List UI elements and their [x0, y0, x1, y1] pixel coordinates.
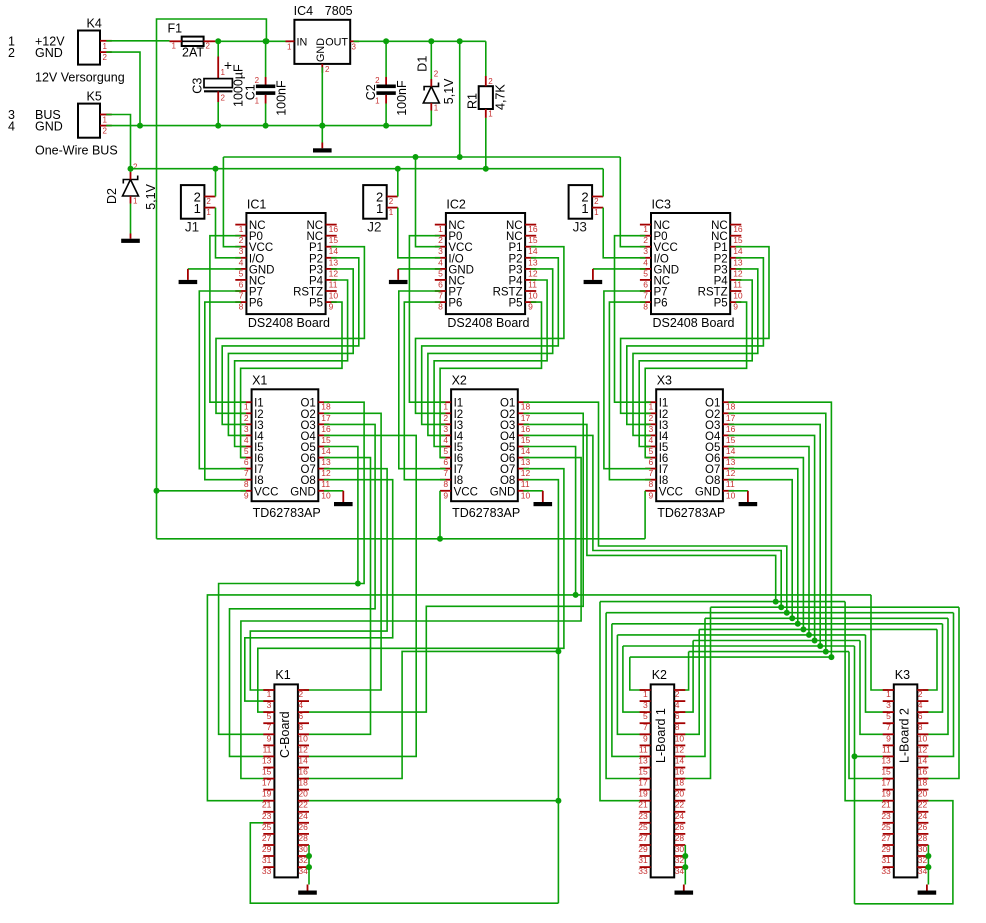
svg-text:16: 16: [298, 767, 308, 777]
IC X1 TD62783AP labels: [252, 374, 321, 521]
capacitor C3: [204, 57, 232, 103]
wire bus L8 to K3 pin9: [860, 641, 888, 735]
svg-text:TD62783AP: TD62783AP: [657, 506, 725, 520]
wire bus L2 to K3 pin18: [923, 607, 959, 778]
IC IC1 DS2408: [235, 213, 338, 314]
svg-text:X3: X3: [657, 374, 672, 388]
svg-text:6: 6: [918, 711, 923, 721]
wire X1 O5 tee: [324, 447, 358, 584]
wire bus line L6: [699, 628, 937, 630]
svg-text:R1: R1: [466, 93, 480, 109]
svg-text:F1: F1: [168, 22, 183, 36]
wire D2 bottom: [130, 204, 132, 234]
wire fused12V vertical left: [156, 41, 158, 539]
wire bus L6 to K2 pin10: [680, 629, 699, 734]
wire bus line L4: [705, 617, 948, 619]
svg-text:C1: C1: [244, 84, 258, 100]
wire C2 bottom: [385, 104, 387, 126]
wire IC3 P6 to X3 I8: [609, 302, 650, 480]
wire X1 GND: [324, 490, 343, 492]
svg-text:5,1V: 5,1V: [442, 78, 456, 104]
svg-text:18: 18: [298, 778, 308, 788]
junction GND K5.2: [137, 123, 143, 129]
svg-text:IC3: IC3: [652, 198, 672, 212]
svg-text:2: 2: [594, 197, 599, 206]
svg-text:27: 27: [638, 833, 648, 843]
wire R1 top: [485, 41, 487, 76]
K4 pin labels: [8, 35, 65, 61]
F1 labels: [168, 22, 205, 60]
wire bus line L8: [693, 640, 860, 642]
svg-text:J1: J1: [185, 220, 199, 235]
wire bus L3 to K2 pin17: [606, 613, 645, 779]
svg-text:C2: C2: [364, 84, 378, 100]
junction C2 top: [383, 38, 389, 44]
svg-text:D2: D2: [105, 188, 119, 204]
wire IC2 P1 to X2 I2: [416, 247, 564, 414]
ground K2: [675, 885, 694, 895]
svg-text:6: 6: [643, 279, 648, 289]
svg-text:1: 1: [581, 201, 588, 216]
svg-text:GND: GND: [290, 486, 316, 498]
IC IC1 DS2408 labels: [247, 198, 330, 331]
junction bus L3: [784, 610, 790, 616]
K4 value label: [35, 71, 125, 85]
svg-text:IC4: IC4: [294, 4, 314, 18]
svg-text:DS2408 Board: DS2408 Board: [653, 316, 735, 330]
svg-text:1: 1: [443, 402, 448, 412]
svg-text:24: 24: [298, 811, 308, 821]
svg-text:2: 2: [443, 413, 448, 423]
wire X3 O7 to bus L5: [729, 469, 798, 624]
svg-text:31: 31: [881, 855, 891, 865]
wire X3 O1 to bus L11: [729, 402, 832, 657]
wire IC1 P3 to X1 I4: [228, 269, 353, 436]
wire X1 O1 to K1 pin9: [219, 402, 365, 734]
wire IC3 P5 to X3 I6: [645, 302, 746, 458]
svg-text:1: 1: [172, 42, 177, 51]
svg-text:24: 24: [918, 811, 928, 821]
svg-text:11: 11: [528, 279, 537, 289]
capacitor C2 labels: [364, 80, 409, 116]
wire IC2 P2 to X2 I3: [422, 258, 559, 425]
wire bus line L3: [606, 612, 953, 614]
wire IC3 P2 to X3 I3: [627, 258, 764, 425]
wire X2 O8 long drop: [523, 480, 558, 904]
svg-text:VCC: VCC: [454, 486, 478, 498]
junction K3 pin34: [925, 864, 931, 870]
wire to K3 pin13: [855, 755, 889, 757]
svg-text:25: 25: [881, 822, 891, 832]
wire IC3 P1 to X3 I2: [621, 247, 769, 414]
svg-text:K5: K5: [87, 90, 102, 104]
wire bus L11 to K2 pin1: [630, 657, 645, 690]
junction bus L9: [817, 643, 823, 649]
junction bus L8: [812, 638, 818, 644]
wire bus L9 to K2 pin5: [623, 646, 645, 712]
svg-text:5,1V: 5,1V: [144, 183, 158, 209]
svg-text:8: 8: [239, 302, 244, 312]
diode D1 zener labels: [416, 56, 457, 105]
svg-text:9: 9: [733, 302, 738, 312]
svg-text:DS2408 Board: DS2408 Board: [248, 316, 330, 330]
svg-text:2: 2: [434, 70, 439, 79]
svg-text:8: 8: [443, 479, 448, 489]
IC IC2 DS2408: [435, 213, 538, 314]
wire K2 gnd tie: [684, 845, 686, 885]
wire IC2 P0 to X2 I1: [409, 236, 445, 403]
svg-text:K4: K4: [87, 17, 102, 31]
wire BUS to J3.2: [602, 169, 604, 197]
wire X2 O4 to bus L2: [523, 435, 781, 607]
wire IC3 P3 to X3 I4: [633, 269, 758, 436]
svg-text:7: 7: [643, 722, 648, 732]
svg-text:12: 12: [521, 468, 531, 478]
junction BUS J2 tap: [395, 166, 401, 172]
svg-text:IC1: IC1: [247, 198, 267, 212]
ground IC1: [179, 269, 198, 284]
svg-text:DS2408 Board: DS2408 Board: [447, 316, 529, 330]
svg-text:28: 28: [298, 833, 308, 843]
wire bus L3 to K3 pin14: [923, 613, 954, 757]
svg-text:1: 1: [438, 224, 443, 234]
wire BUS K5.1 down: [106, 115, 130, 169]
svg-text:2: 2: [239, 235, 244, 245]
svg-text:2: 2: [438, 235, 443, 245]
wire IC1 P4 to X1 I5: [235, 280, 348, 447]
svg-text:11: 11: [329, 279, 338, 289]
jumper J3 label: [573, 220, 587, 235]
svg-text:15: 15: [638, 767, 648, 777]
svg-text:2: 2: [325, 65, 330, 74]
svg-text:OUT: OUT: [325, 36, 348, 48]
svg-text:24: 24: [675, 811, 685, 821]
svg-text:7: 7: [239, 291, 244, 301]
junction K3 pin13: [852, 753, 858, 759]
wire IC1 P5 to X1 I6: [241, 302, 342, 458]
svg-text:3: 3: [443, 424, 448, 434]
svg-text:3: 3: [643, 700, 648, 710]
wire X1 O8 to K1 pin3: [245, 480, 393, 701]
svg-text:18: 18: [918, 778, 928, 788]
junction bus L10: [823, 649, 829, 655]
wire bus L1 to K3 pin21: [845, 602, 888, 801]
svg-text:4: 4: [918, 700, 923, 710]
wire bus line L5: [612, 623, 943, 625]
svg-text:D1: D1: [416, 56, 430, 72]
svg-text:20: 20: [298, 789, 308, 799]
svg-text:X1: X1: [252, 374, 267, 388]
wire J to IC3 I/O: [603, 208, 645, 258]
svg-text:10: 10: [918, 733, 928, 743]
svg-text:27: 27: [262, 833, 272, 843]
wire BUS rail: [131, 168, 604, 170]
wire K1 pin22: [304, 800, 559, 802]
svg-text:2: 2: [206, 197, 211, 206]
wire IC2 P4 to X2 I5: [434, 280, 547, 447]
svg-text:12: 12: [528, 268, 538, 278]
svg-text:4: 4: [438, 257, 443, 267]
svg-text:11: 11: [882, 744, 891, 754]
junction GND C3: [215, 123, 221, 129]
IC X3 TD62783AP labels: [657, 374, 726, 521]
svg-text:IC2: IC2: [446, 198, 466, 212]
svg-text:1: 1: [287, 43, 292, 52]
svg-text:C-Board: C-Board: [278, 711, 292, 758]
wire D1 top: [430, 41, 432, 79]
svg-text:6: 6: [298, 711, 303, 721]
svg-text:9: 9: [886, 733, 891, 743]
svg-text:3: 3: [643, 246, 648, 256]
svg-text:20: 20: [918, 789, 928, 799]
svg-text:9: 9: [267, 733, 272, 743]
junction C3 top: [215, 38, 221, 44]
svg-text:15: 15: [329, 235, 339, 245]
wire bus L10 to K2 pin2: [680, 652, 689, 690]
svg-text:12: 12: [733, 268, 743, 278]
svg-text:5: 5: [886, 711, 891, 721]
svg-text:11: 11: [521, 479, 530, 489]
svg-text:5: 5: [643, 711, 648, 721]
wire bus L2 to K2 pin18: [680, 607, 711, 778]
svg-text:16: 16: [726, 424, 736, 434]
ground X1: [334, 491, 353, 506]
svg-text:15: 15: [726, 435, 736, 445]
wire X2 O7 to K1 pin5: [258, 469, 564, 712]
svg-text:4: 4: [8, 120, 15, 134]
wire bus L7 to K2 pin9: [617, 635, 645, 734]
wire bottom loop to K1 pin25: [250, 823, 558, 903]
svg-text:8: 8: [643, 302, 648, 312]
wire X1 O4 to K1 pin14: [304, 435, 417, 756]
wire X3 O5 to bus L7: [729, 447, 810, 635]
svg-text:GND: GND: [35, 120, 63, 134]
svg-text:9: 9: [244, 490, 249, 500]
svg-text:4: 4: [239, 257, 244, 267]
svg-text:12: 12: [298, 744, 308, 754]
svg-text:16: 16: [528, 224, 538, 234]
junction GND C1: [263, 123, 269, 129]
capacitor C1 labels: [244, 80, 289, 116]
svg-text:29: 29: [638, 844, 648, 854]
wire fused12V to IC4 IN: [215, 40, 291, 42]
diode D2 zener labels: [105, 183, 158, 209]
svg-text:11: 11: [733, 279, 742, 289]
svg-text:5: 5: [648, 446, 653, 456]
svg-text:1: 1: [103, 42, 108, 51]
wire J to IC2 I/O: [398, 208, 441, 258]
svg-text:10: 10: [675, 733, 685, 743]
K5 pin labels: [8, 108, 63, 133]
wire +5V out rail: [354, 40, 486, 42]
svg-text:12: 12: [675, 744, 685, 754]
svg-text:10: 10: [528, 291, 538, 301]
capacitor C2: [375, 76, 396, 106]
junction K1 pin34: [306, 864, 312, 870]
wire X3 O3 to bus L9: [729, 424, 821, 646]
svg-text:5: 5: [239, 268, 244, 278]
ground IC2: [389, 269, 408, 284]
svg-text:13: 13: [321, 457, 331, 467]
wire X3 O8 to bus L4: [729, 480, 793, 619]
wire bus L6 to K3 pin2: [923, 629, 937, 690]
svg-text:16: 16: [329, 224, 339, 234]
svg-text:15: 15: [733, 235, 743, 245]
wire long line to K3 pin1: [871, 595, 888, 690]
svg-text:16: 16: [321, 424, 331, 434]
svg-text:23: 23: [262, 811, 272, 821]
connector K2 L-Board 1 labels: [652, 668, 669, 763]
wire bus L9 drop: [854, 646, 856, 904]
svg-text:1: 1: [648, 402, 653, 412]
svg-text:10: 10: [321, 490, 331, 500]
svg-text:9: 9: [643, 733, 648, 743]
IC X2 TD62783AP: [440, 389, 531, 501]
wire IC1 GND: [188, 268, 241, 270]
svg-text:7: 7: [648, 468, 653, 478]
svg-text:P6: P6: [249, 298, 263, 310]
junction pin22 net: [555, 798, 561, 804]
wire IC1 P6 to X1 I8: [205, 302, 246, 480]
svg-text:16: 16: [918, 767, 928, 777]
junction K1 pin32: [306, 853, 312, 859]
svg-text:VCC: VCC: [659, 486, 683, 498]
svg-text:33: 33: [881, 866, 891, 876]
ground X3: [739, 491, 758, 506]
svg-text:11: 11: [639, 744, 648, 754]
wire X2 O3 to bus L1: [523, 424, 775, 601]
svg-text:4: 4: [298, 700, 303, 710]
wire IC3 GND: [593, 268, 646, 270]
svg-text:18: 18: [321, 402, 331, 412]
svg-text:2: 2: [918, 689, 923, 699]
svg-text:4: 4: [244, 435, 249, 445]
jumper J2: [363, 185, 398, 219]
wire X3 VCC rise: [644, 491, 646, 539]
svg-text:31: 31: [638, 855, 648, 865]
svg-text:10: 10: [733, 291, 743, 301]
IC X3 TD62783AP: [645, 389, 736, 501]
wire K1 gnd tie: [308, 845, 310, 885]
wire bus line L9: [623, 645, 855, 647]
ground IC3: [584, 269, 603, 284]
svg-text:1: 1: [643, 224, 648, 234]
svg-text:9: 9: [329, 302, 334, 312]
svg-text:19: 19: [881, 789, 891, 799]
svg-text:11: 11: [263, 744, 272, 754]
wire X3 O6 to bus L6: [729, 458, 804, 630]
svg-text:13: 13: [733, 257, 743, 267]
svg-text:GND: GND: [490, 486, 516, 498]
svg-text:3: 3: [239, 246, 244, 256]
svg-text:5: 5: [267, 711, 272, 721]
junction X1 VCC: [154, 488, 160, 494]
wire IC3 P4 to X3 I5: [639, 280, 752, 447]
svg-text:28: 28: [675, 833, 685, 843]
svg-text:27: 27: [881, 833, 891, 843]
svg-text:17: 17: [262, 778, 272, 788]
wire IC3 P7 to X3 I7: [604, 291, 651, 469]
svg-text:12: 12: [726, 468, 736, 478]
wire bus line L10: [689, 651, 849, 653]
svg-text:15: 15: [262, 767, 272, 777]
svg-text:10: 10: [521, 490, 531, 500]
svg-text:19: 19: [262, 789, 272, 799]
svg-text:26: 26: [675, 822, 685, 832]
svg-text:25: 25: [262, 822, 272, 832]
ground K3: [918, 885, 937, 895]
wire IC2 P7 to X2 I7: [399, 291, 446, 469]
ground IC4: [313, 143, 332, 153]
svg-text:12: 12: [321, 468, 331, 478]
wire IC1 P0 to X1 I1: [210, 236, 246, 403]
svg-text:21: 21: [638, 800, 648, 810]
svg-text:12: 12: [329, 268, 339, 278]
wire bus L8 to K2 pin6: [680, 641, 693, 713]
IC4 labels: [294, 4, 353, 18]
svg-text:6: 6: [675, 711, 680, 721]
connector K2 L-Board 1: [638, 684, 685, 877]
svg-text:2: 2: [255, 76, 260, 85]
junction bus L1: [773, 599, 779, 605]
capacitor C1: [255, 76, 276, 106]
svg-text:14: 14: [675, 755, 685, 765]
svg-text:TD62783AP: TD62783AP: [253, 506, 321, 520]
junction GND C2: [383, 123, 389, 129]
svg-text:14: 14: [321, 446, 331, 456]
svg-text:13: 13: [329, 257, 339, 267]
svg-text:2: 2: [648, 413, 653, 423]
svg-text:17: 17: [726, 413, 736, 423]
svg-text:18: 18: [521, 402, 531, 412]
ground X2: [534, 491, 553, 506]
svg-text:26: 26: [918, 822, 928, 832]
wire X2 O5 tee: [523, 447, 575, 595]
svg-text:21: 21: [262, 800, 272, 810]
svg-text:29: 29: [881, 844, 891, 854]
IC IC2 DS2408 labels: [446, 198, 529, 331]
svg-text:9: 9: [528, 302, 533, 312]
wire bus line L1: [600, 601, 845, 603]
svg-text:14: 14: [918, 755, 928, 765]
svg-text:K3: K3: [895, 668, 910, 682]
svg-text:1: 1: [244, 402, 249, 412]
svg-text:1: 1: [376, 201, 383, 216]
svg-text:100nF: 100nF: [395, 80, 409, 116]
wire IC1 P1 to X1 I2: [216, 247, 364, 414]
svg-text:3: 3: [267, 700, 272, 710]
svg-text:13: 13: [528, 257, 538, 267]
wire R1 bottom to BUS: [485, 118, 487, 169]
wire +5V to IC3 VCC: [620, 157, 645, 247]
wire bottom loop to K3 pin22: [855, 801, 953, 904]
svg-text:9: 9: [443, 490, 448, 500]
wire X2 O2 to K1 pin6: [304, 413, 584, 712]
svg-text:2: 2: [8, 46, 15, 60]
svg-text:1: 1: [434, 104, 439, 113]
svg-text:One-Wire BUS: One-Wire BUS: [35, 144, 118, 158]
wire X1 O6 to K1 pin10: [304, 458, 371, 735]
connector K1 C-Board: [262, 684, 309, 877]
svg-text:10: 10: [329, 291, 339, 301]
svg-text:23: 23: [881, 811, 891, 821]
svg-text:2: 2: [103, 53, 108, 62]
connector K1 C-Board labels: [275, 668, 292, 758]
wire X1 VCC tap: [157, 490, 247, 492]
wire D1 bottom: [430, 111, 432, 126]
wire +12V K4 to F1: [106, 40, 169, 42]
svg-text:5: 5: [443, 446, 448, 456]
